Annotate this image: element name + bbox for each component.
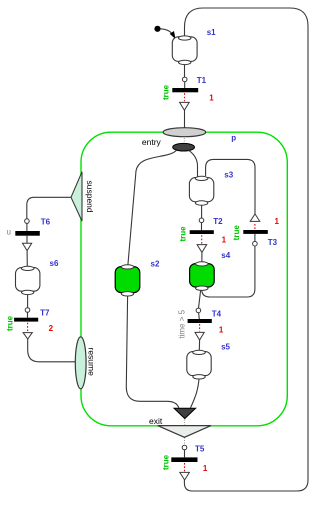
svg-text:true: true — [232, 225, 241, 241]
svg-text:true: true — [179, 226, 188, 242]
wire suspend to T6 — [27, 197, 71, 219]
svg-text:1: 1 — [209, 93, 214, 102]
state s1 — [172, 36, 197, 65]
transition T2 — [190, 218, 214, 252]
wire s6 to T7 — [27, 295, 29, 308]
svg-text:true: true — [5, 315, 14, 331]
wire T7 to resume — [28, 339, 76, 362]
svg-text:true: true — [161, 454, 170, 470]
svg-text:p: p — [231, 133, 236, 142]
svg-text:entry: entry — [142, 137, 162, 147]
svg-text:T5: T5 — [195, 445, 205, 454]
dotted link entry — [183, 138, 185, 143]
svg-text:s2: s2 — [151, 259, 160, 268]
wire s2 to exit junction — [126, 296, 179, 408]
svg-text:true: true — [161, 84, 170, 100]
svg-text:1: 1 — [219, 325, 224, 334]
initial transition arrow — [161, 29, 173, 34]
svg-text:T3: T3 — [268, 238, 278, 247]
transition T4 — [188, 308, 212, 340]
wire s1 to T1 — [184, 65, 186, 77]
svg-text:s4: s4 — [221, 251, 230, 260]
wire s4 to T3 loop — [202, 246, 255, 297]
transition T5 — [171, 445, 197, 480]
svg-text:s5: s5 — [221, 343, 230, 352]
wire s4 to T4 — [199, 290, 201, 308]
svg-text:T1: T1 — [197, 76, 207, 85]
svg-text:T4: T4 — [212, 309, 222, 318]
entry inner ellipse — [173, 143, 195, 151]
wire T4 to s5 — [198, 340, 200, 351]
initial state dot — [154, 26, 160, 32]
resume port ellipse — [75, 337, 86, 389]
transition T1 — [172, 77, 198, 110]
state s6 — [16, 266, 40, 294]
svg-text:2: 2 — [49, 324, 54, 333]
state s5 — [187, 350, 211, 379]
wire T6 to s6 — [26, 251, 28, 267]
svg-text:time > 5: time > 5 — [177, 309, 186, 338]
svg-text:s3: s3 — [224, 170, 233, 179]
svg-text:suspend: suspend — [85, 181, 95, 213]
wire T1 to entry — [184, 110, 186, 127]
transition T3 (upward) — [243, 214, 267, 246]
wire s3 to T2 — [201, 205, 203, 218]
svg-text:T2: T2 — [213, 217, 223, 226]
suspend port triangle — [71, 172, 82, 221]
state s3 — [189, 176, 213, 205]
wire s5 to exit junction — [191, 379, 200, 408]
wire entry to s3 — [189, 150, 198, 177]
svg-text:1: 1 — [203, 464, 208, 473]
svg-text:exit: exit — [149, 416, 163, 426]
svg-text:resume: resume — [87, 348, 97, 377]
transition T7 — [14, 308, 38, 339]
transition T6 — [15, 219, 40, 251]
svg-text:T7: T7 — [40, 308, 50, 317]
wire T2 to s4 — [201, 252, 203, 261]
svg-text:1: 1 — [222, 236, 227, 245]
dotted link exit — [184, 420, 186, 446]
wire entry to s2 — [128, 150, 177, 266]
svg-text:u: u — [7, 228, 11, 237]
exit port triangle — [158, 426, 211, 438]
exit junction triangle — [174, 408, 196, 418]
svg-text:s1: s1 — [207, 28, 216, 37]
state s2 (active, green) — [115, 265, 140, 296]
svg-text:T6: T6 — [41, 217, 51, 226]
state s4 (active, green) — [190, 262, 215, 291]
svg-text:s6: s6 — [50, 259, 59, 268]
wire outer feedback loop T5 to s1 — [184, 8, 308, 491]
superstate p (green box) — [81, 132, 287, 426]
wire T3 to s3 — [206, 159, 255, 214]
entry port ellipse — [163, 128, 206, 137]
svg-text:1: 1 — [275, 217, 280, 226]
